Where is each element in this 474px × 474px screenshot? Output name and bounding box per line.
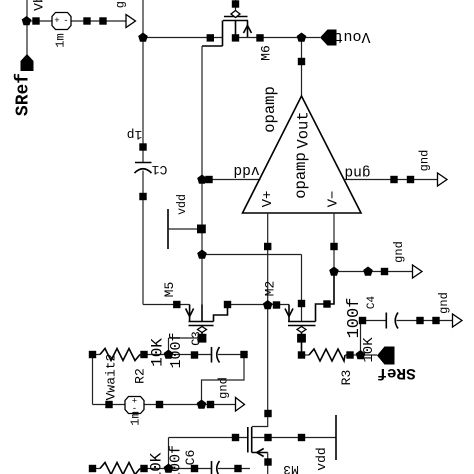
svg-text:10K: 10K [148,452,166,474]
svg-text:100f: 100f [345,298,364,339]
svg-text:C1: C1 [152,162,168,177]
svg-text:C3: C3 [190,331,204,345]
svg-text:+: + [54,16,59,26]
svg-text:10K: 10K [149,338,167,367]
svg-text:gnd: gnd [418,150,432,172]
svg-text:gnd: gnd [437,292,451,314]
svg-text:10K: 10K [361,337,377,363]
svg-text:1m: 1m [129,411,143,425]
svg-text:Vwait2: Vwait2 [104,354,119,401]
svg-text:R2: R2 [133,368,148,384]
svg-text:Vout: Vout [334,28,370,45]
svg-text:R3: R3 [339,370,354,386]
svg-text:1m: 1m [54,33,68,47]
svg-text:M6: M6 [259,45,274,61]
svg-text:1p: 1p [127,127,143,142]
svg-text:gnd: gnd [392,241,406,263]
svg-text:opamp: opamp [292,152,310,199]
svg-text:opamp: opamp [261,86,279,133]
svg-text:gnd: gnd [344,164,370,180]
svg-text:Vout: Vout [295,111,313,148]
svg-text:M2: M2 [263,281,278,297]
svg-text:SRef: SRef [377,364,415,382]
svg-text:-: - [63,16,68,26]
svg-text:C4: C4 [366,296,378,310]
svg-text:V+: V+ [260,191,276,208]
svg-text:M5: M5 [162,282,177,298]
svg-text:SRef: SRef [14,73,34,116]
svg-text:C6: C6 [183,450,198,466]
svg-text:100f: 100f [168,445,185,474]
svg-text:100f: 100f [168,332,185,368]
svg-text:vdd: vdd [176,194,189,215]
svg-text:V−: V− [326,191,342,208]
svg-text:vdd: vdd [233,162,259,178]
svg-text:Vb: Vb [32,0,47,11]
svg-text:vdd: vdd [314,447,329,470]
svg-text:gnd: gnd [217,377,231,399]
svg-text:M3: M3 [283,462,299,474]
svg-text:gn: gn [114,0,128,8]
